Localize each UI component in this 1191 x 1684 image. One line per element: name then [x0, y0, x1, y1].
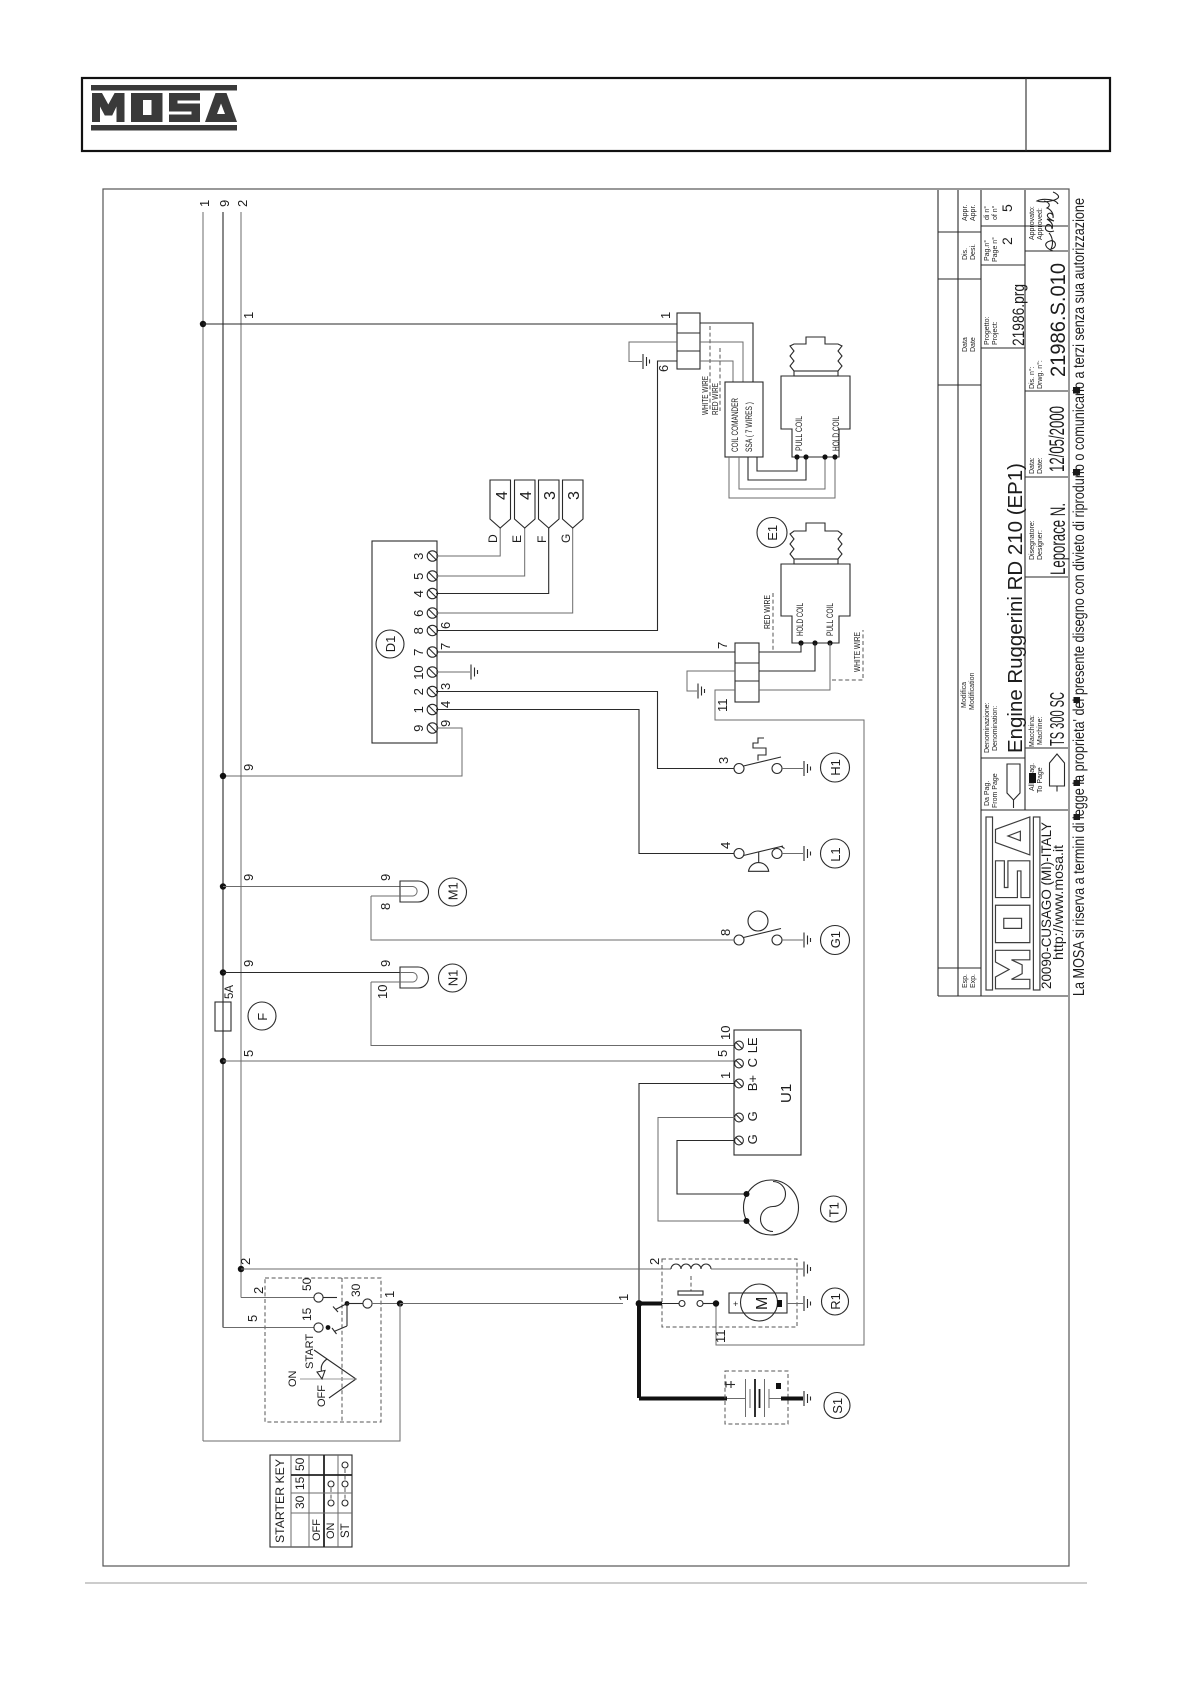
- svg-text:B+: B+: [745, 1075, 760, 1091]
- svg-text:R1: R1: [828, 1293, 843, 1310]
- key dashed box: [265, 1278, 381, 1422]
- svg-text:Appr.: Appr.: [970, 205, 977, 221]
- svg-text:Data:: Data:: [1029, 457, 1036, 474]
- starter motor M: [729, 1293, 787, 1313]
- svg-text:3: 3: [411, 553, 426, 560]
- bus rail 2: [240, 212, 242, 1298]
- svg-text:G: G: [745, 1111, 760, 1121]
- svg-text:3: 3: [566, 491, 583, 500]
- glyph blobs in copyright line: [1073, 387, 1080, 394]
- svg-text:4: 4: [718, 842, 733, 849]
- MOSA outline logo (title block, rotated): [986, 817, 1040, 990]
- svg-text:4: 4: [411, 590, 426, 597]
- svg-text:2: 2: [647, 1258, 662, 1265]
- svg-text:Dis.: Dis.: [962, 248, 969, 260]
- svg-text:6: 6: [438, 622, 453, 629]
- flag F: [539, 480, 560, 528]
- R1 relay coil: [671, 1264, 711, 1269]
- svg-text:1: 1: [197, 200, 212, 207]
- svg-text:SSA ( 7 WIRES ): SSA ( 7 WIRES ): [744, 402, 754, 452]
- svg-text:M1: M1: [445, 882, 460, 900]
- svg-text:21986.S.010: 21986.S.010: [1047, 263, 1070, 377]
- svg-text:di n°: di n°: [983, 206, 991, 220]
- wire 9 (D1 pin9 to rail): [223, 728, 462, 776]
- svg-text:8: 8: [411, 627, 426, 634]
- relay contact: [678, 1291, 703, 1295]
- svg-text:Date:: Date:: [1037, 457, 1044, 474]
- svg-text:12/05/2000: 12/05/2000: [1046, 406, 1069, 472]
- svg-text:7: 7: [715, 642, 730, 649]
- connector X2 (E1, 3-way): [735, 643, 759, 702]
- svg-text:1: 1: [658, 312, 673, 319]
- wire 9 to M1: [220, 883, 226, 889]
- svg-text:2: 2: [251, 1287, 266, 1294]
- svg-text:2: 2: [999, 237, 1015, 245]
- svg-text:9: 9: [438, 720, 453, 727]
- relay linkage dashed: [690, 1276, 692, 1291]
- flag G wire (pin6): [436, 528, 573, 613]
- svg-text:15: 15: [300, 1307, 314, 1321]
- svg-text:1: 1: [616, 1294, 631, 1301]
- svg-text:Drwg. n°:: Drwg. n°:: [1036, 360, 1044, 389]
- bold wire battery to ground: [781, 1397, 803, 1401]
- SSA coil commander box: [725, 382, 763, 457]
- flag F wire (pin4): [436, 528, 549, 594]
- svg-text:7: 7: [438, 643, 453, 650]
- wire 1 top distribution: [200, 321, 206, 327]
- svg-text:5: 5: [411, 573, 426, 580]
- svg-text:9: 9: [241, 764, 256, 771]
- battery dashed box: [725, 1371, 788, 1424]
- svg-text:To Page: To Page: [1037, 767, 1044, 793]
- svg-text:WHITE WIRE: WHITE WIRE: [853, 632, 862, 672]
- svg-text:T1: T1: [826, 1202, 841, 1217]
- svg-text:RED WIRE: RED WIRE: [763, 595, 772, 629]
- svg-text:5: 5: [245, 1315, 260, 1322]
- terminal 50: [314, 1293, 323, 1302]
- svg-text:Approved:: Approved:: [1037, 208, 1044, 240]
- svg-text:Disegnatore:: Disegnatore:: [1029, 520, 1036, 560]
- svg-text:Modifica: Modifica: [961, 682, 968, 708]
- red wire dashed (X1): [719, 348, 721, 411]
- flag D: [490, 480, 511, 528]
- connector X1 (3-way, coil commander): [677, 313, 700, 369]
- svg-text:HOLD COIL: HOLD COIL: [795, 603, 805, 636]
- svg-text:4: 4: [438, 701, 453, 708]
- svg-text:C: C: [745, 1058, 760, 1067]
- svg-text:Denomination:: Denomination:: [992, 706, 999, 751]
- header divider: [1025, 78, 1027, 151]
- ground at connector X1: [629, 342, 677, 362]
- svg-text:Approvato:: Approvato:: [1029, 206, 1036, 240]
- wire 8 (M1 to G1): [371, 896, 734, 940]
- svg-text:5: 5: [715, 1050, 730, 1057]
- U1 G wires to T1: [658, 1118, 746, 1222]
- svg-text:PULL COIL: PULL COIL: [794, 416, 804, 451]
- svg-text:of n°: of n°: [991, 205, 999, 220]
- svg-text:Engine Ruggerini RD 210 (EP1): Engine Ruggerini RD 210 (EP1): [1005, 463, 1027, 753]
- svg-text:OFF: OFF: [311, 1519, 323, 1541]
- flag E: [515, 480, 536, 528]
- wire 10 (N1 to U1 LE): [371, 982, 735, 1046]
- page header bar: [82, 78, 1110, 151]
- D1 pin10 ground: [436, 671, 470, 673]
- terminal 15: [314, 1323, 323, 1332]
- starter key table: [270, 1455, 352, 1547]
- svg-text:1: 1: [411, 706, 426, 713]
- white wire dashed (E1): [832, 630, 863, 680]
- bus rail 9: [222, 212, 224, 1328]
- svg-text:8: 8: [718, 929, 733, 936]
- svg-text:RED WIRE: RED WIRE: [711, 383, 720, 415]
- svg-text:D1: D1: [383, 636, 398, 653]
- svg-text:Macchina:: Macchina:: [1029, 715, 1036, 747]
- L1 level switch: [734, 849, 744, 859]
- svg-text:F: F: [535, 536, 549, 543]
- svg-text:50: 50: [293, 1457, 307, 1471]
- E1 threads: [790, 523, 842, 559]
- red wire dashed (E1): [772, 593, 774, 651]
- SSA to pull/hold coil wires: [757, 457, 797, 471]
- key contacts: [323, 1297, 337, 1299]
- svg-text:Exp.: Exp.: [970, 974, 977, 988]
- svg-text:G: G: [745, 1134, 760, 1144]
- solenoid 1 (engine stop solenoid w/ pull+hold coils): [790, 337, 842, 371]
- wire key junction to battery junction: [400, 1303, 623, 1305]
- ground at X2: [687, 671, 735, 691]
- svg-text:Da Pag.: Da Pag.: [984, 781, 991, 806]
- flag D wire (pin3): [436, 528, 500, 556]
- bus rail 1: [202, 212, 204, 1441]
- title block grid: [937, 190, 939, 996]
- svg-text:La MOSA si riserva a termini d: La MOSA si riserva a termini di legge la…: [1071, 198, 1088, 996]
- svg-text:11: 11: [715, 699, 730, 713]
- wire 2 to key 50: [241, 1297, 314, 1299]
- H1 oil pressure switch: [734, 764, 744, 774]
- svg-text:10: 10: [375, 985, 390, 999]
- svg-text:8: 8: [378, 903, 393, 910]
- table contacts ST: [342, 1462, 348, 1468]
- svg-text:D: D: [486, 534, 500, 543]
- battery plates: [727, 1398, 746, 1400]
- footer rule: [85, 1582, 1087, 1584]
- from-page flag: [1007, 764, 1020, 800]
- svg-text:COIL COMANDER: COIL COMANDER: [730, 398, 740, 452]
- solenoid E1 label: [757, 518, 787, 548]
- svg-text:10: 10: [411, 665, 426, 679]
- svg-text:H1: H1: [828, 759, 843, 776]
- D1 terminal block: [372, 541, 437, 743]
- R1 dashed enclosure: [662, 1259, 797, 1327]
- svg-text:9: 9: [241, 874, 256, 881]
- svg-text:1: 1: [382, 1291, 397, 1298]
- flag G: [563, 480, 584, 528]
- svg-text:M: M: [754, 1297, 771, 1310]
- svg-text:1: 1: [718, 1072, 733, 1079]
- svg-text:6: 6: [411, 610, 426, 617]
- svg-text:E: E: [510, 535, 524, 543]
- svg-text:TS 300 SC: TS 300 SC: [1047, 692, 1069, 746]
- svg-text:F: F: [255, 1013, 270, 1021]
- svg-text:2: 2: [238, 1258, 253, 1265]
- svg-text:3: 3: [716, 757, 731, 764]
- svg-text:WHITE WIRE: WHITE WIRE: [701, 376, 710, 415]
- svg-text:HOLD COIL: HOLD COIL: [831, 416, 841, 451]
- svg-text:U1: U1: [778, 1084, 795, 1103]
- MOSA logo (header): [91, 85, 237, 131]
- X2 to coil wires: [759, 643, 801, 652]
- svg-text:9: 9: [378, 960, 393, 967]
- svg-text:5: 5: [241, 1050, 256, 1057]
- svg-text:21986.prg: 21986.prg: [1009, 284, 1028, 346]
- svg-text:6: 6: [656, 365, 671, 372]
- svg-text:3: 3: [542, 491, 559, 500]
- svg-text:Leporace N.: Leporace N.: [1047, 503, 1070, 575]
- svg-text:L1: L1: [828, 847, 843, 861]
- svg-text:50: 50: [300, 1277, 314, 1291]
- svg-text:4: 4: [518, 491, 535, 500]
- svg-text:Esp.: Esp.: [962, 974, 969, 988]
- svg-text:Progetto:: Progetto:: [984, 317, 991, 345]
- E1 body: [781, 564, 850, 643]
- svg-text:LE: LE: [745, 1037, 760, 1053]
- wire 2 to R1 coil: [238, 1266, 244, 1272]
- drawing frame: [103, 189, 1069, 1566]
- svg-text:9: 9: [241, 960, 256, 967]
- key symbol: [314, 1350, 356, 1398]
- svg-text:Pag.n°: Pag.n°: [983, 240, 991, 261]
- fuse F 5A: [215, 1002, 231, 1031]
- M1 element: [400, 881, 429, 902]
- svg-text:ON: ON: [325, 1522, 337, 1539]
- svg-text:ON: ON: [287, 1370, 299, 1387]
- svg-text:7: 7: [411, 649, 426, 656]
- svg-text:9: 9: [411, 725, 426, 732]
- battery + mark: [725, 1382, 727, 1388]
- wire 5 to key 15: [223, 1327, 314, 1329]
- G1 temperature switch: [734, 935, 744, 945]
- T1 alternator: [744, 1180, 799, 1235]
- svg-text:Designer:: Designer:: [1037, 530, 1044, 560]
- wire 1 (B+ to battery junction): [639, 1084, 735, 1304]
- svg-text:10: 10: [718, 1026, 733, 1040]
- wire 3 (D1 pin2 to H1): [436, 692, 734, 769]
- svg-text:Modification: Modification: [969, 673, 976, 710]
- svg-text:Appr.: Appr.: [962, 205, 969, 221]
- svg-text:Data: Data: [962, 337, 969, 352]
- svg-text:9: 9: [378, 874, 393, 881]
- svg-text:5A: 5A: [224, 985, 236, 999]
- svg-text:2: 2: [411, 688, 426, 695]
- svg-text:G1: G1: [828, 931, 843, 948]
- svg-text:Machine:: Machine:: [1037, 717, 1044, 745]
- svg-text:1: 1: [241, 312, 256, 319]
- signature squiggle: [1037, 192, 1059, 251]
- svg-text:From Page: From Page: [992, 773, 999, 808]
- svg-text:E1: E1: [765, 525, 780, 541]
- wire 11 (around engine block): [715, 690, 864, 1345]
- svg-text:Date: Date: [970, 337, 977, 352]
- terminal 30: [363, 1299, 372, 1308]
- svg-text:N1: N1: [445, 970, 460, 987]
- svg-text:STARTER KEY: STARTER KEY: [273, 1459, 287, 1543]
- U1 box: [734, 1030, 801, 1155]
- svg-text:S1: S1: [830, 1398, 845, 1414]
- wire 4 (D1 pin1 to L1): [436, 710, 734, 854]
- svg-text:30: 30: [349, 1283, 363, 1297]
- wire: rail1 bottom to key junction: [203, 1304, 400, 1442]
- svg-text:9: 9: [217, 200, 232, 207]
- wire 5 (to U1 C): [220, 1058, 226, 1064]
- svg-text:Project:: Project:: [992, 321, 999, 345]
- white wire dashed (X1): [709, 326, 711, 411]
- svg-text:15: 15: [293, 1476, 307, 1490]
- table contacts ON: [328, 1481, 334, 1487]
- svg-text:OFF: OFF: [316, 1385, 328, 1407]
- wire 9 to N1: [220, 969, 226, 975]
- to-page flag: [1050, 754, 1065, 786]
- svg-text:4: 4: [494, 491, 511, 500]
- svg-text:+: +: [733, 1299, 738, 1309]
- svg-text:11: 11: [713, 1330, 728, 1344]
- svg-text:Desi.: Desi.: [970, 244, 977, 260]
- wire 1 segment into contact: [639, 1303, 679, 1305]
- svg-text:Page n°: Page n°: [991, 237, 999, 262]
- svg-text:http://www.mosa.it: http://www.mosa.it: [1050, 845, 1066, 960]
- bold wire: junction to battery: [637, 1302, 662, 1306]
- svg-text:PULL COIL: PULL COIL: [825, 603, 835, 636]
- svg-text:START: START: [304, 1334, 316, 1369]
- flag E wire (pin5): [436, 528, 525, 576]
- svg-text:5: 5: [999, 204, 1015, 212]
- N1 element: [400, 967, 429, 988]
- wire 7: [437, 651, 735, 653]
- svg-text:ST: ST: [340, 1523, 352, 1538]
- wire 6: [437, 361, 677, 631]
- svg-text:G: G: [559, 534, 573, 543]
- svg-text:Dis. n°:: Dis. n°:: [1028, 366, 1036, 389]
- svg-text:3: 3: [438, 683, 453, 690]
- svg-text:30: 30: [293, 1495, 307, 1509]
- svg-text:Denominazione:: Denominazione:: [984, 702, 991, 753]
- X1 to SSA box wires: [700, 323, 753, 382]
- svg-text:2: 2: [235, 200, 250, 207]
- wire 1 from key 30: [372, 1303, 400, 1305]
